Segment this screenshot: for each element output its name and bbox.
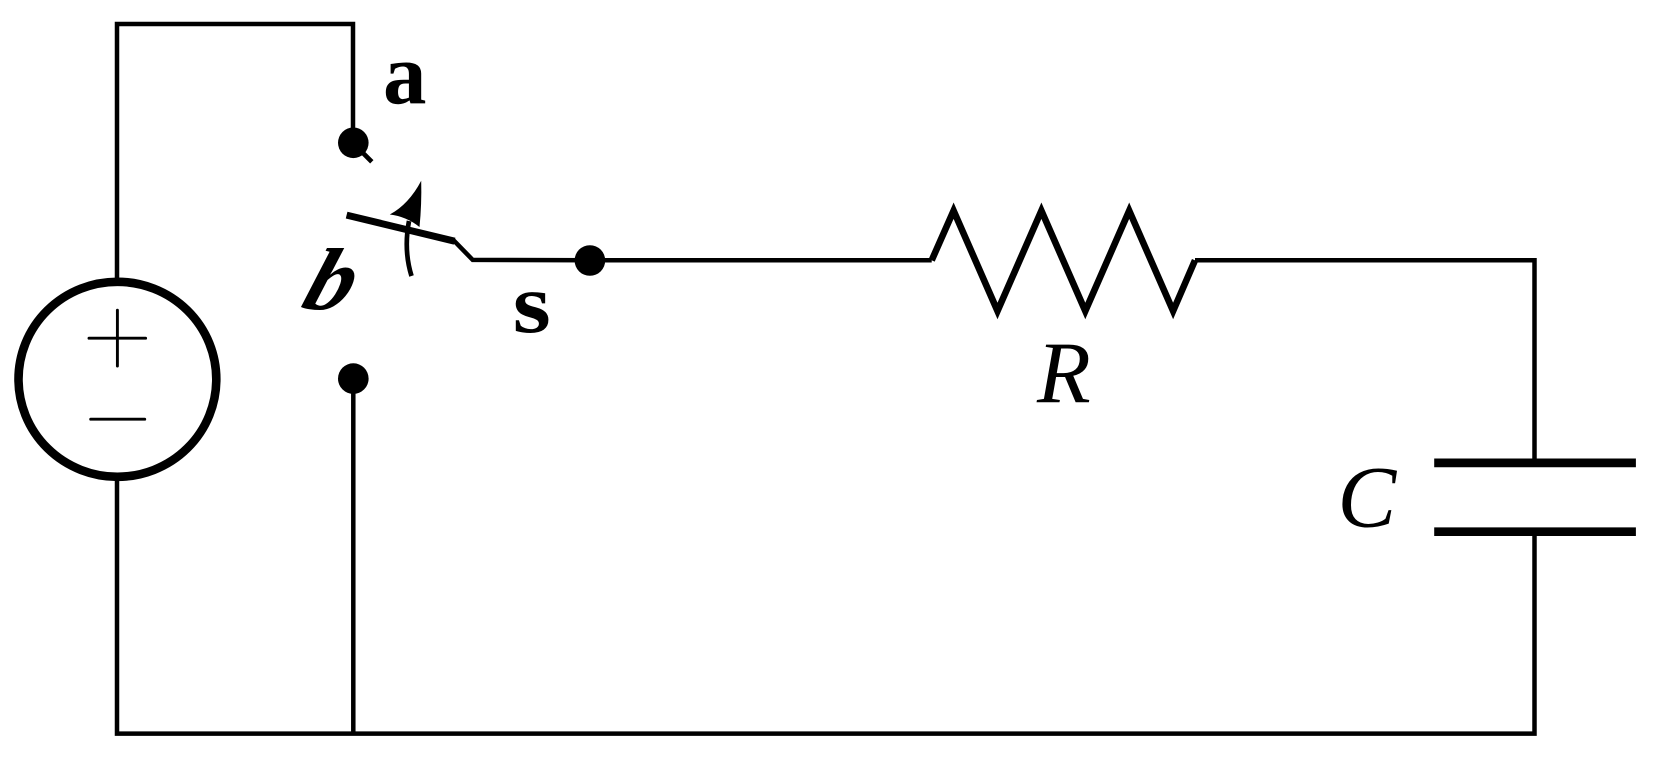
- svg-text:s: s: [513, 256, 551, 351]
- node b: [338, 363, 369, 394]
- switch blade S: [347, 215, 455, 241]
- battery / source V: [19, 282, 217, 477]
- node a: [338, 128, 369, 159]
- node s (pole): [575, 245, 606, 276]
- arrowhead of throw arrow: [390, 181, 422, 227]
- wire resistor to top-right corner: [1195, 260, 1535, 460]
- wire source bottom to bottom rail: [117, 480, 1535, 734]
- capacitor C top plate: [1434, 459, 1636, 468]
- minus sign: [91, 418, 145, 421]
- svg-text:b: b: [293, 232, 373, 329]
- contact stub at a: [362, 152, 372, 162]
- wire s to resistor: [590, 258, 932, 263]
- switch elbow wire to pole s: [454, 240, 590, 260]
- switch throw arrow arc: [407, 221, 412, 276]
- capacitor C bottom plate: [1434, 527, 1636, 536]
- svg-text:R: R: [1036, 326, 1091, 423]
- resistor R zigzag: [932, 211, 1195, 311]
- wire b down to bottom rail: [351, 379, 356, 734]
- wire top-left loop: from node a corner left then down to source: [117, 24, 353, 278]
- svg-text:C: C: [1338, 450, 1398, 547]
- plus sign: [89, 310, 146, 366]
- svg-text:a: a: [383, 26, 427, 123]
